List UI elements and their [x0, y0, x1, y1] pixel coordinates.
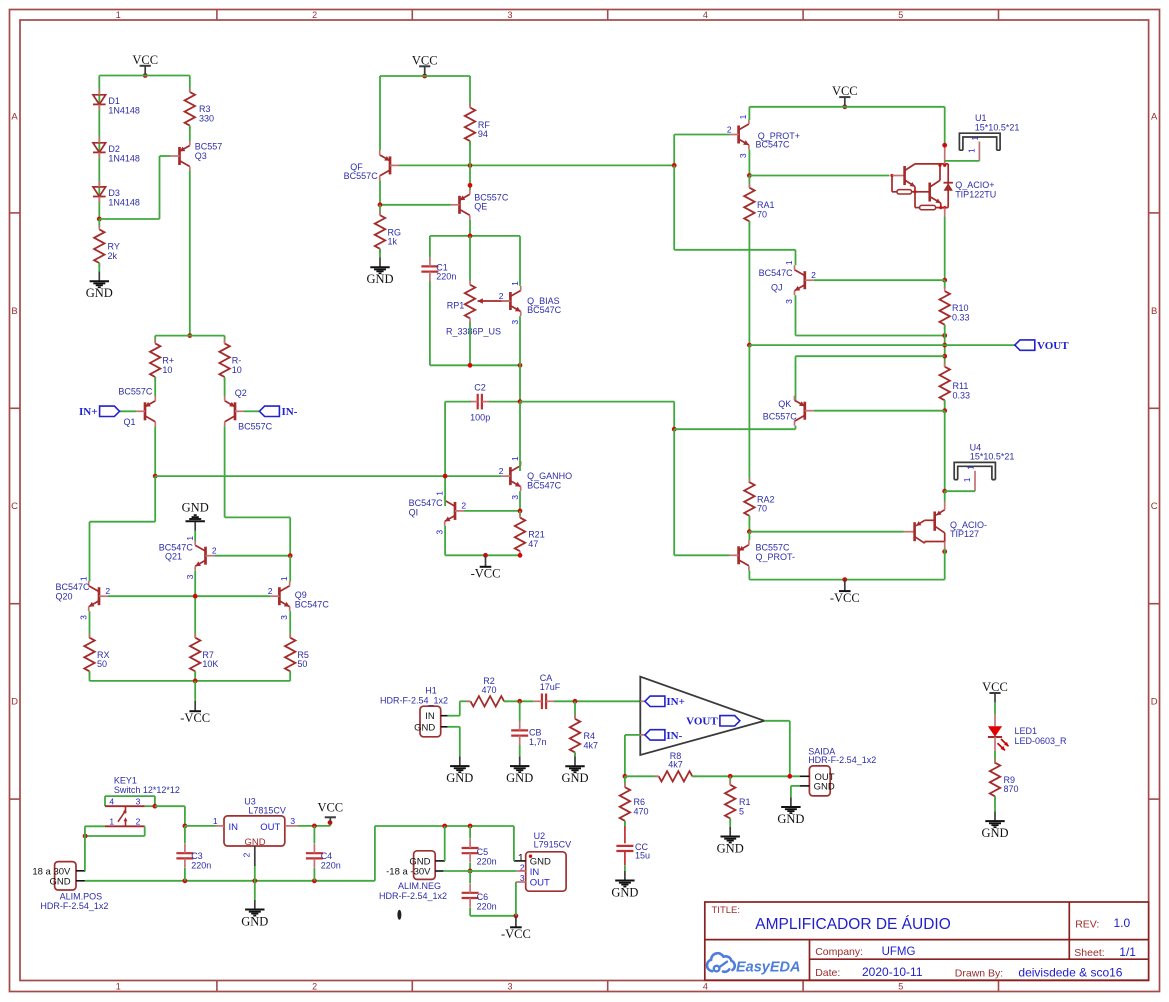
wire QE emitter link	[468, 165, 473, 190]
transistor QE BC557C	[451, 190, 509, 220]
svg-text:BC557C: BC557C	[238, 421, 273, 431]
capacitor CC 15u	[616, 821, 650, 871]
svg-text:0.33: 0.33	[952, 313, 970, 323]
svg-text:B: B	[1151, 306, 1157, 317]
capacitor C3 220n	[176, 826, 211, 881]
node CA R4 junction	[554, 699, 640, 704]
svg-text:VCC: VCC	[132, 53, 158, 67]
resistor R8 4k7	[655, 751, 697, 782]
resistor R3 330	[185, 76, 214, 130]
wire mirror base row	[108, 594, 270, 599]
regulator U3 L7815CV	[213, 796, 298, 866]
wire QF collector down	[379, 180, 381, 204]
wire right rail VCC to U1 node	[942, 107, 947, 148]
port IN- flag	[244, 406, 298, 418]
resistor RX 50	[84, 611, 109, 681]
wire C2 left column	[445, 402, 471, 477]
wire QJ base row to R10 top	[814, 279, 945, 281]
svg-text:Switch 12*12*12: Switch 12*12*12	[114, 785, 180, 795]
capacitor C5 220n	[462, 826, 497, 873]
wire GND to Q21 collector	[194, 531, 196, 542]
wire switch output to C3	[153, 804, 188, 829]
svg-text:1: 1	[738, 114, 748, 119]
svg-text:1,7n: 1,7n	[529, 737, 547, 747]
switch KEY1 Switch 12*12*12	[105, 776, 180, 827]
svg-text:IN+: IN+	[666, 696, 685, 708]
wire op-amp IN- link	[625, 735, 640, 776]
svg-text:2020-10-11: 2020-10-11	[862, 965, 923, 979]
svg-text:1: 1	[185, 536, 195, 541]
svg-text:VCC: VCC	[832, 84, 858, 98]
svg-text:AMPLIFICADOR DE ÁUDIO: AMPLIFICADOR DE ÁUDIO	[755, 916, 951, 933]
svg-text:-18 a -30V: -18 a -30V	[386, 867, 431, 878]
svg-text:47: 47	[528, 539, 538, 549]
svg-text:1N4148: 1N4148	[108, 105, 140, 115]
capacitor C4 220n	[306, 826, 341, 881]
wire negative rail right	[749, 577, 944, 582]
svg-text:220n: 220n	[477, 857, 497, 867]
svg-text:-VCC: -VCC	[471, 567, 501, 581]
svg-text:2: 2	[811, 270, 816, 280]
wire QK emitter row	[796, 356, 945, 400]
ground GND under R4	[561, 757, 588, 786]
svg-text:IN-: IN-	[282, 406, 298, 418]
wire VCC rail 2	[380, 75, 470, 77]
wire switch lower loop	[83, 826, 145, 838]
svg-text:BC547C: BC547C	[759, 268, 794, 278]
resistor R10 0.33	[940, 280, 970, 335]
wire Q2 collector to mirror	[225, 426, 291, 555]
resistor RF 94	[465, 76, 491, 165]
svg-text:-VCC: -VCC	[180, 711, 210, 725]
svg-text:ALIM.NEG: ALIM.NEG	[398, 881, 441, 891]
wire right rail R11 to U4	[942, 411, 947, 494]
wire Q_PROT+ collector up	[748, 107, 750, 120]
svg-text:1: 1	[967, 148, 976, 153]
wire mirror bottom rail	[90, 679, 291, 684]
svg-text:BC547C: BC547C	[295, 600, 330, 610]
transistor QK BC557C	[763, 396, 814, 426]
svg-text:5: 5	[898, 981, 903, 991]
node Q3 collector junction	[187, 333, 192, 338]
svg-text:1: 1	[967, 465, 976, 470]
node diode-RY junction	[97, 217, 102, 222]
resistor RA2 70	[744, 345, 774, 534]
transistor Q9 BC547C	[268, 576, 330, 620]
svg-text:4: 4	[703, 981, 708, 991]
wire VOUT row junctions	[942, 336, 947, 367]
wire ALIM.NEG pin2 row to U2 IN	[443, 870, 516, 872]
svg-text:3: 3	[510, 495, 520, 500]
port IN+ flag	[79, 406, 136, 418]
capacitor CA 17uF	[534, 673, 561, 709]
svg-text:Q3: Q3	[195, 151, 207, 161]
wire Q21 base row	[215, 553, 293, 558]
svg-text:B: B	[11, 306, 17, 317]
svg-text:70: 70	[757, 209, 767, 219]
svg-text:BC547C: BC547C	[56, 582, 91, 592]
wire Q_PROT+ emitter down	[747, 150, 752, 178]
svg-text:3: 3	[510, 320, 520, 325]
svg-text:1: 1	[279, 576, 289, 581]
svg-text:0.33: 0.33	[953, 390, 971, 400]
resistor RA1 70	[744, 176, 774, 226]
svg-text:1: 1	[963, 477, 972, 482]
wire diff tail row to Q_GANHO	[155, 474, 501, 479]
svg-text:4: 4	[109, 797, 114, 807]
wire QJ emitter row	[796, 295, 948, 338]
ground GND under CB	[506, 756, 533, 785]
svg-text:220n: 220n	[477, 901, 497, 911]
header ALIM.NEG HDR-F-2.54_1x2	[379, 851, 447, 901]
wire ALIM.POS pin1 up to switch	[84, 836, 86, 871]
svg-text:5: 5	[898, 10, 903, 20]
svg-text:deivisdede & sco16: deivisdede & sco16	[1018, 966, 1122, 980]
svg-text:3: 3	[185, 574, 195, 579]
transistor QJ BC547C	[759, 260, 817, 304]
svg-text:870: 870	[1004, 784, 1019, 794]
svg-text:3: 3	[78, 615, 88, 620]
power flag VCC net VCC	[132, 53, 158, 78]
svg-text:2: 2	[499, 466, 504, 476]
svg-text:470: 470	[481, 685, 496, 695]
power flag VCC net VCC 2	[412, 53, 438, 78]
svg-text:70: 70	[757, 504, 767, 514]
wire GND jog up	[375, 824, 514, 881]
svg-text:GND: GND	[717, 841, 744, 855]
svg-text:3: 3	[507, 981, 512, 991]
wire RA1 to VOUT row	[748, 221, 750, 345]
svg-text:220n: 220n	[191, 860, 211, 870]
svg-text:GND: GND	[414, 722, 435, 733]
svg-text:VCC: VCC	[317, 801, 343, 815]
svg-text:Company:: Company:	[815, 946, 863, 958]
mounting mark ellipse	[397, 910, 401, 920]
svg-text:VCC: VCC	[982, 680, 1008, 694]
ground GND under RY	[86, 272, 113, 301]
svg-text:94: 94	[478, 129, 488, 139]
svg-text:2: 2	[312, 981, 317, 991]
svg-text:GND: GND	[561, 771, 588, 785]
resistor R2 470	[466, 676, 508, 706]
svg-text:GND: GND	[981, 826, 1008, 840]
power flag VCC LED branch	[982, 680, 1008, 703]
svg-text:1: 1	[971, 136, 980, 141]
transistor Q_PROT+ BC547C	[727, 114, 800, 158]
wire RY to GND	[98, 263, 100, 272]
svg-text:GND: GND	[366, 272, 393, 286]
svg-text:1: 1	[78, 576, 88, 581]
wire U3 GND to rail	[254, 866, 256, 881]
svg-text:470: 470	[634, 807, 649, 817]
wire diff pair top row	[155, 335, 224, 337]
transistor Q_BIAS BC547C	[499, 281, 562, 325]
wire QI collector up	[444, 476, 446, 506]
diode D3	[93, 181, 140, 208]
svg-text:VOUT: VOUT	[686, 716, 718, 728]
svg-text:2: 2	[461, 501, 466, 511]
svg-text:GND: GND	[49, 876, 70, 887]
wire rail to GND symbol	[254, 881, 256, 900]
wire Q_PROT- emitter up	[748, 532, 750, 541]
wire R3 to Q3 emitter	[189, 126, 191, 142]
potentiometer RP1 R_3386P_US	[446, 236, 510, 365]
svg-text:3: 3	[784, 299, 794, 304]
resistor R11 0.33	[940, 363, 971, 414]
svg-text:QK: QK	[778, 399, 791, 409]
svg-text:Q2: Q2	[235, 388, 247, 398]
svg-text:BC557C: BC557C	[118, 386, 153, 396]
svg-text:Date:: Date:	[815, 967, 840, 979]
svg-text:C: C	[1151, 501, 1158, 512]
svg-text:ALIM.POS: ALIM.POS	[60, 891, 103, 901]
svg-text:BC547C: BC547C	[527, 305, 562, 315]
svg-text:OUT: OUT	[260, 822, 280, 833]
wire VCC top rail	[99, 75, 190, 77]
wire Q_GANHO collector up	[519, 402, 521, 471]
svg-text:5: 5	[739, 806, 744, 816]
svg-text:330: 330	[199, 114, 214, 124]
wire Q1 side jog to Q20	[90, 476, 156, 581]
svg-text:2: 2	[499, 291, 504, 301]
capacitor C1 220n	[421, 236, 456, 365]
ground GND under CC	[611, 871, 638, 900]
svg-text:100p: 100p	[470, 412, 490, 422]
svg-text:4: 4	[703, 10, 708, 20]
wire RA1 column VOUT junction	[747, 343, 945, 348]
svg-text:IN-: IN-	[666, 730, 682, 742]
svg-text:2: 2	[727, 124, 732, 134]
title block frame	[705, 902, 1149, 980]
svg-text:15u: 15u	[635, 850, 650, 860]
wire H1 IN to R2	[448, 701, 471, 715]
svg-text:REV:: REV:	[1075, 919, 1099, 931]
wire Q_BIAS collector up	[519, 236, 521, 286]
wire R- to Q2 emitter	[224, 377, 226, 396]
transistor Q2 BC557C	[225, 388, 273, 431]
op-amp triangle	[640, 677, 764, 755]
node C2 right junction	[489, 399, 522, 404]
svg-text:BC557C: BC557C	[763, 412, 798, 422]
svg-text:VOUT: VOUT	[1037, 340, 1069, 352]
resistor R9 870	[990, 759, 1019, 812]
svg-text:1N4148: 1N4148	[108, 197, 140, 207]
resistor R5 50	[285, 611, 309, 681]
svg-text:Q1: Q1	[123, 417, 135, 427]
svg-text:A: A	[11, 112, 18, 123]
ground GND under H1	[446, 756, 473, 785]
svg-text:1: 1	[510, 281, 520, 286]
svg-text:3: 3	[434, 530, 444, 535]
transistor QI BC547C	[409, 491, 467, 535]
wire Q_PROT+ emitter to Q_ACIO+ base	[749, 175, 889, 177]
transistor Q_ACIO- TIP127 darlington	[904, 502, 988, 549]
wire R+ to Q1 emitter	[154, 377, 156, 396]
svg-text:D: D	[1151, 697, 1158, 708]
port IN+ flag inside op-amp	[640, 696, 685, 708]
wire Q_GANHO emitter down	[519, 491, 521, 511]
wire U3 OUT to VCC	[298, 823, 330, 828]
svg-text:GND: GND	[446, 771, 473, 785]
svg-text:1N4148: 1N4148	[108, 153, 140, 163]
ground GND under R1	[717, 827, 744, 856]
svg-text:15*10.5*21: 15*10.5*21	[970, 452, 1015, 462]
svg-text:A: A	[1151, 112, 1158, 123]
wire C3 to U3 IN	[185, 825, 216, 827]
wire C6 bottom to -VCC node	[470, 913, 518, 918]
wire bias to C2 node	[519, 365, 521, 401]
power flag -VCC right stage	[830, 580, 860, 605]
node RF base junction	[468, 163, 473, 168]
svg-text:2: 2	[105, 586, 110, 596]
svg-text:-VCC: -VCC	[501, 927, 531, 941]
svg-text:GND: GND	[86, 286, 113, 300]
svg-text:BC547C: BC547C	[527, 480, 562, 490]
svg-text:Sheet:: Sheet:	[1074, 947, 1104, 959]
node feedback left junction	[623, 774, 659, 779]
svg-text:3: 3	[136, 797, 141, 807]
resistor R4 4k7	[570, 701, 598, 756]
svg-text:2: 2	[312, 10, 317, 20]
resistor RG 1k	[375, 205, 401, 258]
logo EasyEDA	[707, 953, 801, 975]
svg-text:1.0: 1.0	[1114, 916, 1131, 930]
svg-text:QI: QI	[409, 507, 419, 517]
resistor R7 10K	[190, 634, 218, 681]
port IN- flag inside op-amp	[640, 730, 682, 742]
svg-text:Drawn By:: Drawn By:	[955, 967, 1003, 979]
svg-text:50: 50	[297, 659, 307, 669]
svg-text:1: 1	[109, 816, 114, 826]
svg-text:10: 10	[232, 365, 242, 375]
svg-text:TITLE:: TITLE:	[712, 905, 741, 916]
svg-text:IN: IN	[425, 711, 435, 722]
wire left rail to QJ row	[674, 165, 795, 249]
svg-text:IN: IN	[229, 822, 239, 833]
wire bias box bottom row	[430, 363, 522, 368]
svg-text:RP1: RP1	[447, 301, 465, 311]
svg-text:Q21: Q21	[165, 552, 182, 562]
svg-text:1k: 1k	[388, 237, 398, 247]
wire Q9 collector up	[289, 556, 291, 582]
transistor Q_PROT- BC557C	[730, 540, 795, 570]
ground GND under RG	[366, 258, 393, 287]
wire Q_BIAS emitter down	[519, 316, 521, 365]
svg-text:R_3386P_US: R_3386P_US	[446, 327, 501, 337]
wire Q_PROT+ base link	[672, 135, 730, 168]
svg-text:GND: GND	[182, 501, 209, 515]
resistor R6 470	[620, 776, 649, 825]
svg-text:LED1: LED1	[1015, 726, 1038, 736]
svg-text:HDR-F-2.54_1x2: HDR-F-2.54_1x2	[379, 891, 447, 901]
svg-text:VCC: VCC	[412, 53, 438, 67]
svg-text:1/1: 1/1	[1119, 945, 1136, 959]
wire H1 GND down	[448, 727, 460, 757]
svg-text:Q20: Q20	[56, 592, 73, 602]
svg-text:4k7: 4k7	[584, 740, 599, 750]
transistor Q3 BC557	[171, 141, 223, 171]
svg-text:1: 1	[116, 981, 121, 991]
svg-text:1: 1	[116, 10, 121, 20]
port VOUT flag	[945, 340, 1070, 352]
svg-text:1: 1	[510, 456, 520, 461]
svg-text:BC547C: BC547C	[756, 140, 791, 150]
svg-text:Q9: Q9	[295, 590, 307, 600]
capacitor C6 220n	[462, 871, 497, 916]
svg-text:OUT: OUT	[530, 878, 550, 889]
ground GND under U3	[241, 900, 268, 929]
svg-text:GND: GND	[506, 771, 533, 785]
svg-text:10K: 10K	[202, 659, 218, 669]
svg-text:50: 50	[97, 659, 107, 669]
node R2 CB junction	[504, 699, 534, 704]
svg-text:17uF: 17uF	[540, 682, 561, 692]
wire QE base row	[378, 202, 451, 207]
header ALIM.POS HDR-F-2.54_1x2	[32, 862, 108, 912]
wire RA2 node to Q_ACIO- base	[749, 531, 903, 533]
svg-text:C: C	[11, 501, 18, 512]
wire QI base row	[464, 509, 522, 514]
resistor RY 2k	[94, 219, 120, 267]
svg-text:1: 1	[434, 491, 444, 496]
wire Q3 collector down	[189, 171, 191, 336]
svg-text:3: 3	[279, 615, 289, 620]
svg-text:C2: C2	[474, 382, 486, 392]
svg-text:IN+: IN+	[79, 406, 98, 418]
wire VCC to LED	[994, 703, 996, 727]
svg-text:TIP122TU: TIP122TU	[955, 189, 996, 199]
resistor R21 47	[515, 511, 545, 556]
wire ALIM.NEG GND pin up	[444, 826, 446, 861]
transistor QF BC557C	[344, 150, 399, 181]
wire diode chain vertical	[98, 76, 100, 220]
svg-text:TIP127: TIP127	[950, 529, 979, 539]
wire QK collector down	[795, 426, 797, 430]
wire QJ collector up	[795, 250, 797, 265]
svg-text:UFMG: UFMG	[882, 946, 916, 958]
svg-text:Q_PROT-: Q_PROT-	[756, 552, 796, 562]
power flag -VCC under mirror	[180, 681, 210, 725]
diode D2	[93, 137, 140, 164]
led LED1 LED-0603_R	[988, 726, 1067, 751]
power flag -VCC under QI	[471, 555, 501, 580]
svg-text:3: 3	[290, 816, 295, 826]
svg-text:-VCC: -VCC	[830, 591, 860, 605]
transistor Q1 BC557C	[118, 386, 155, 427]
regulator U2 L7915CV	[514, 831, 571, 891]
wire bias box top row	[430, 234, 520, 239]
svg-text:QE: QE	[474, 202, 487, 212]
svg-text:GND: GND	[814, 782, 835, 793]
wire R8 to output node	[692, 774, 800, 779]
svg-text:10: 10	[162, 365, 172, 375]
wire LED to R9	[994, 751, 996, 764]
svg-text:IN: IN	[530, 867, 540, 878]
heatsink U4 15*10.5*21	[945, 442, 1015, 491]
header SAIDA HDR-F-2.54_1x2	[800, 746, 876, 796]
svg-text:LED-0603_R: LED-0603_R	[1015, 736, 1068, 746]
port VOUT flag inside op-amp	[686, 716, 740, 728]
svg-text:220n: 220n	[436, 272, 456, 282]
power flag -VCC PSU	[501, 916, 531, 941]
svg-text:1: 1	[784, 260, 794, 265]
ground GND above Q21	[182, 501, 209, 531]
wire emitter rail down to QJ base	[942, 217, 947, 283]
svg-text:L7915CV: L7915CV	[534, 840, 572, 850]
svg-text:D: D	[11, 697, 18, 708]
ground GND under R9	[981, 811, 1008, 840]
svg-text:QJ: QJ	[771, 282, 783, 292]
